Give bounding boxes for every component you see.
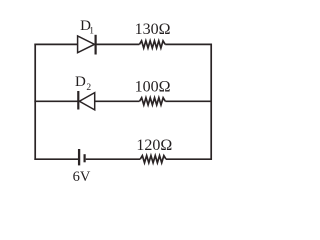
svg-text:130Ω: 130Ω	[135, 21, 171, 38]
wire left rail	[34, 44, 36, 160]
battery 6V	[79, 149, 85, 165]
wire middle branch middle segment	[95, 100, 140, 102]
wire right rail	[210, 44, 212, 160]
svg-text:100Ω: 100Ω	[135, 78, 171, 95]
resistor R3 120ohm zigzag	[140, 156, 166, 163]
wire bottom branch left segment	[34, 158, 78, 160]
resistor R2 100ohm zigzag	[140, 98, 166, 105]
diode D2	[78, 91, 94, 110]
wire top branch middle segment	[96, 43, 140, 45]
svg-text:2: 2	[86, 83, 91, 93]
diode D1	[78, 35, 96, 55]
resistor R1 130ohm zigzag	[139, 41, 165, 48]
wire bottom branch right segment	[166, 158, 212, 160]
svg-text:120Ω: 120Ω	[136, 137, 172, 154]
svg-text:D: D	[75, 74, 86, 90]
svg-text:1: 1	[89, 27, 94, 37]
wire top branch left segment	[34, 43, 77, 45]
wire bottom branch middle segment	[86, 158, 141, 160]
wire middle branch left segment	[34, 100, 78, 102]
label D1	[80, 18, 94, 36]
wire top branch right segment	[165, 43, 212, 45]
label D2	[75, 74, 91, 93]
svg-text:6V: 6V	[73, 169, 91, 185]
wire middle branch right segment	[165, 100, 212, 102]
